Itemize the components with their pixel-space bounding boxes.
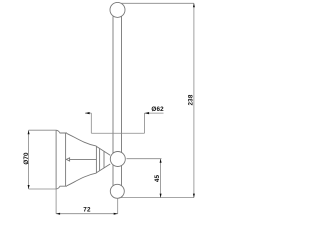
svg-text:238: 238: [188, 94, 195, 105]
svg-text:45: 45: [154, 175, 161, 183]
svg-text:72: 72: [83, 207, 91, 214]
svg-text:Ø62: Ø62: [151, 106, 164, 113]
svg-text:Ø70: Ø70: [23, 152, 30, 165]
